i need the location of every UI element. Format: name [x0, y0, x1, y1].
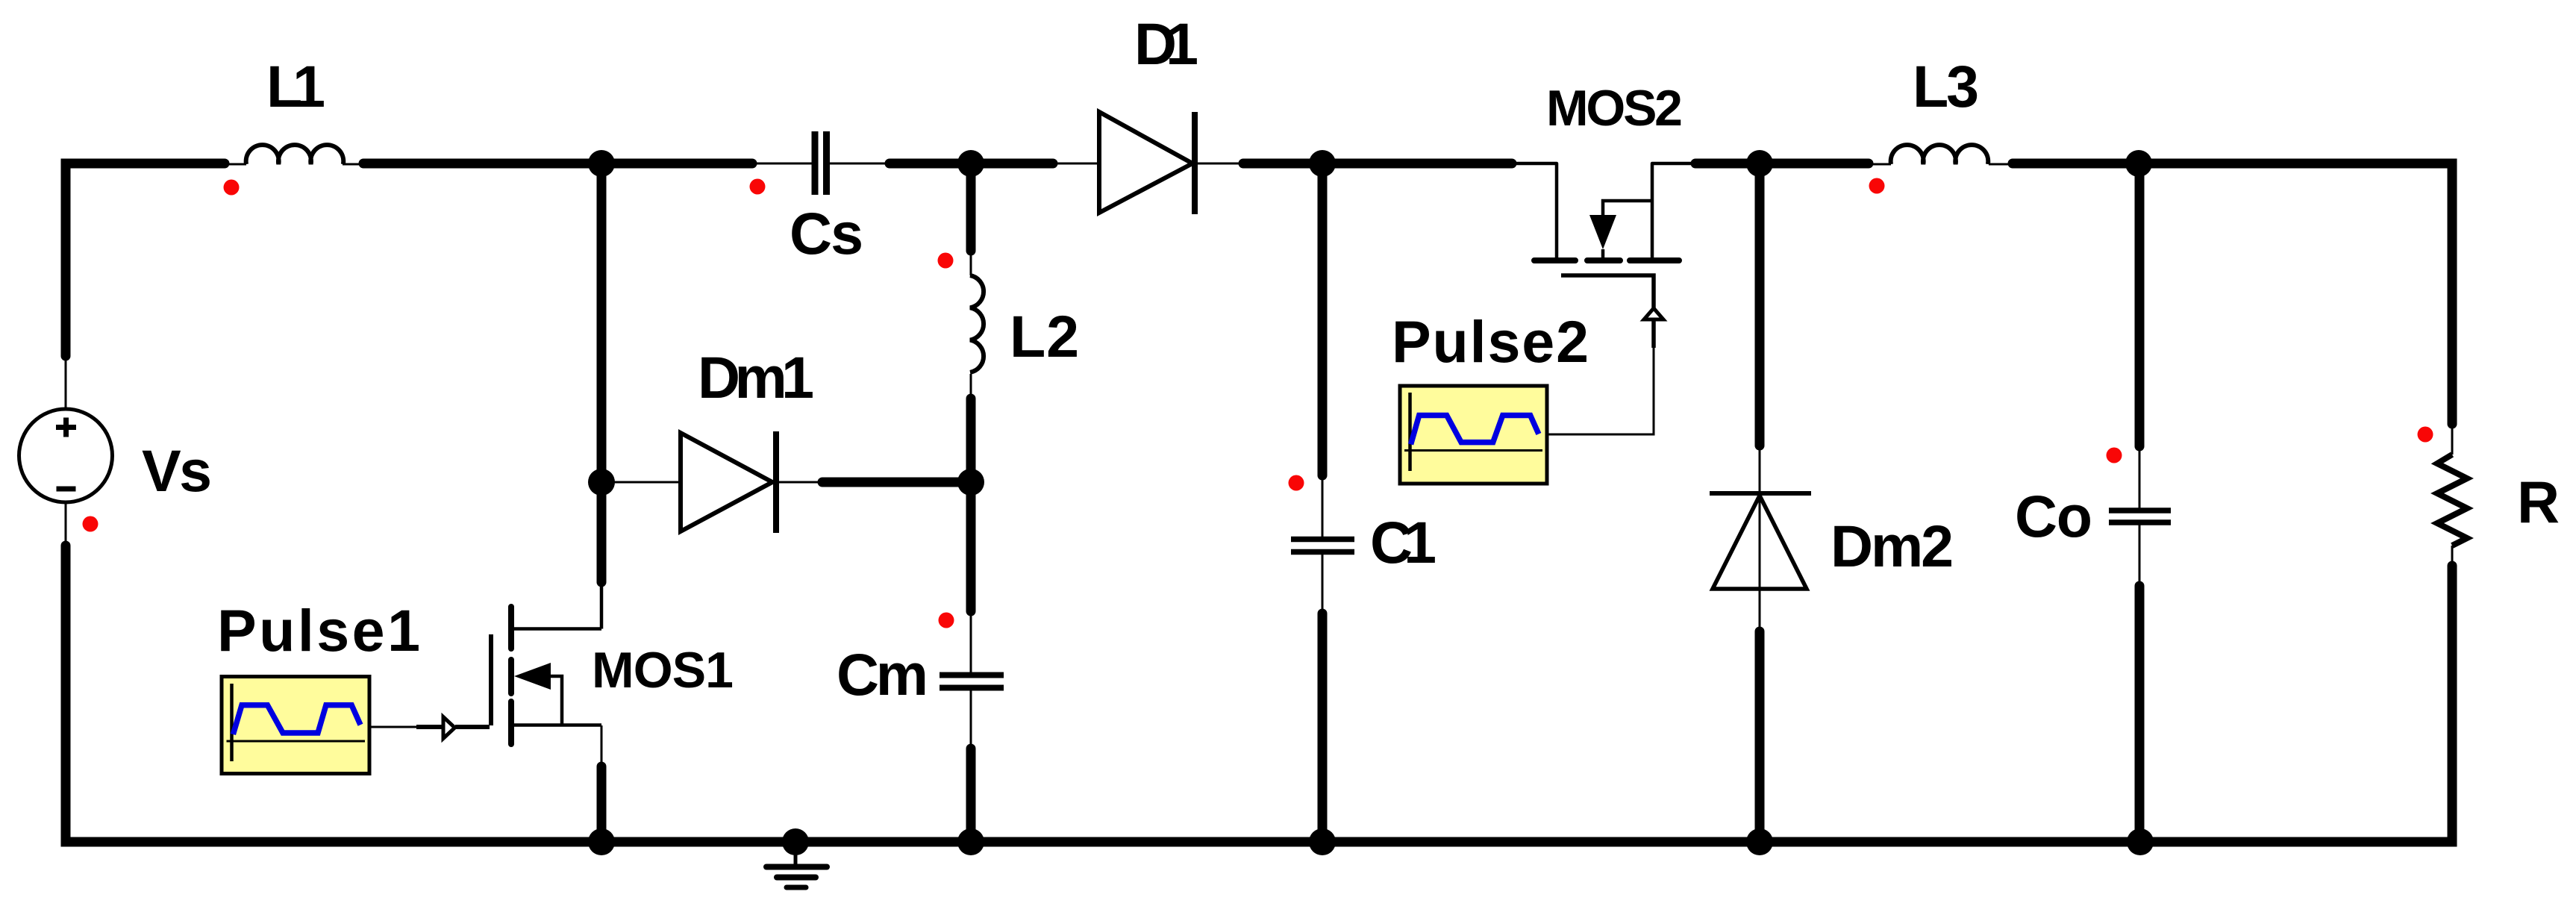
wire Dm2 column lower: [1755, 631, 1765, 842]
junction node bottom Cm: [957, 828, 984, 855]
gate bar: [489, 634, 493, 725]
gate arrow MOS1: [443, 717, 455, 739]
junction node bottom Co: [2127, 828, 2154, 855]
wire top bus MOS2 to L3: [1695, 159, 1869, 169]
wire R leads: [2451, 424, 2454, 455]
inductor L3: [1891, 145, 1989, 164]
wire L2 column top: [966, 163, 976, 251]
wire Co column lower: [2135, 586, 2145, 842]
wire Cm leads: [970, 611, 972, 672]
gate lead MOS1: [416, 725, 442, 729]
MOSFET MOS1: [491, 582, 601, 744]
wire Co leads: [2139, 446, 2141, 508]
wire D1 leads: [1053, 163, 1099, 165]
svg-text:MOS1: MOS1: [592, 642, 734, 699]
pulse source Pulse2: [1400, 386, 1547, 484]
junction node bottom Dm2: [1746, 828, 1773, 855]
node dot Vs: [83, 516, 99, 532]
node dot R: [2418, 427, 2433, 443]
wire top bus L3 to top-right corner + right rail upper: [2013, 163, 2452, 424]
junction node top MOS2: [1746, 150, 1773, 177]
node dot Cm: [939, 613, 954, 628]
junction node top D1: [1309, 150, 1336, 177]
capacitor Co: [2109, 510, 2171, 522]
diode Dm2: [1710, 493, 1811, 589]
ground: [766, 842, 827, 887]
svg-text:L2: L2: [1010, 303, 1079, 369]
junction node top L3: [2125, 150, 2152, 177]
wire top bus D1 to MOS2: [1243, 159, 1512, 169]
svg-text:R: R: [2517, 469, 2560, 535]
wire MOS1 drain lead: [601, 582, 603, 628]
MOSFET MOS2: [1512, 163, 1695, 348]
body arrow MOS1: [514, 663, 551, 690]
wire Vs leads: [65, 356, 67, 409]
thin leads: [66, 163, 2452, 766]
wire Dm2 leads: [1759, 446, 1761, 493]
resistor R: [2437, 455, 2467, 546]
svg-text:C1: C1: [1370, 509, 1437, 575]
junction node top L1: [588, 150, 615, 177]
svg-text:Co: Co: [2015, 483, 2092, 549]
junction node Dm1 left: [588, 469, 615, 496]
pulse source Pulse1: [222, 677, 369, 774]
voltage source Vs: [19, 409, 113, 502]
wire C1 column upper: [1318, 163, 1328, 475]
body arrow MOS2: [1589, 215, 1616, 249]
wire Pulse1 to MOS1 gate lead: [369, 726, 416, 728]
body diode wire: [1603, 201, 1652, 215]
node dot Co: [2107, 448, 2122, 463]
junction node bottom ground: [782, 828, 809, 855]
wire Cs leads: [752, 163, 812, 165]
wire Co column upper: [2135, 163, 2145, 446]
junction node bottom MOS1: [588, 828, 615, 855]
node dot Cs: [750, 179, 766, 195]
wire L1 leads: [225, 163, 246, 166]
svg-text:D1: D1: [1134, 10, 1198, 77]
svg-text:L1: L1: [266, 53, 325, 119]
wire C1 column lower: [1318, 613, 1328, 842]
junction node top Cs: [957, 150, 984, 177]
svg-text:Cm: Cm: [837, 641, 928, 708]
svg-text:Vs: Vs: [142, 437, 212, 504]
wire Cm column lower: [966, 749, 976, 842]
wire L2 leads: [970, 251, 972, 275]
wire MOS1 drain column: [597, 163, 607, 582]
junction node Dm1 right: [957, 469, 984, 496]
drain connection: [511, 582, 601, 629]
wire top-left corner: top bus left segment + left rail upper: [66, 163, 225, 356]
wire top bus after L1 to Cs: [363, 159, 752, 169]
inductor L2: [970, 275, 984, 372]
svg-text:Cs: Cs: [790, 200, 863, 266]
wire Dm1 leads: [612, 481, 681, 484]
gate arrow MOS2: [1644, 308, 1663, 319]
wire Dm1 right segment: [822, 478, 971, 487]
svg-text:Dm1: Dm1: [698, 344, 814, 410]
wire left rail lower + bottom bus + right rail lower: [66, 546, 2452, 842]
wire top bus Cs to D1: [890, 159, 1053, 169]
diode Dm1: [681, 431, 776, 533]
node dot C1: [1289, 475, 1304, 491]
body diode arrow wire: [550, 676, 562, 725]
svg-text:Pulse2: Pulse2: [1392, 308, 1589, 375]
node dot L1: [224, 180, 240, 196]
channel segments: [1534, 257, 1679, 263]
svg-text:Pulse1: Pulse1: [217, 597, 420, 663]
svg-text:MOS2: MOS2: [1546, 80, 1683, 137]
junction node bottom C1: [1309, 828, 1336, 855]
drain lead down: [1512, 163, 1557, 257]
wire Dm2 column upper: [1755, 163, 1765, 446]
capacitor Cs: [815, 131, 827, 195]
diode D1: [1099, 112, 1195, 214]
wire L2 column bottom: [966, 399, 976, 482]
wire Cm column upper: [966, 482, 976, 611]
svg-text:L3: L3: [1913, 53, 1979, 119]
svg-text:Dm2: Dm2: [1831, 513, 1954, 579]
node dot L3: [1869, 178, 1885, 194]
source vertical: [1652, 163, 1695, 257]
node dot L2: [938, 253, 954, 269]
wire MOS1 source column: [597, 766, 607, 842]
wire L3 leads: [1869, 163, 1891, 166]
wire Pulse2 to MOS2 gate: [1547, 348, 1654, 434]
wire C1 leads: [1322, 475, 1324, 537]
wire MOS1 source lead: [601, 725, 603, 766]
gate plate: [1561, 275, 1654, 348]
source connection: [511, 723, 601, 727]
capacitor Cm: [940, 675, 1004, 688]
channel segments: [508, 607, 514, 744]
inductor L1: [246, 145, 344, 164]
capacitor C1: [1291, 540, 1354, 552]
